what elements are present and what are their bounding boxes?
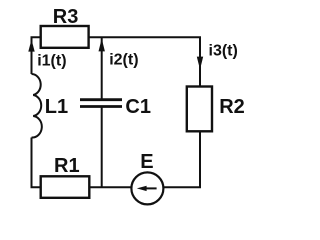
svg-text:i3(t): i3(t) (209, 42, 238, 59)
wire bottom-left corner (L1 bottom to R1 left) (32, 138, 41, 188)
capacitor C1 bottom plate (80, 105, 122, 108)
svg-text:L1: L1 (45, 96, 68, 118)
source E circle (131, 172, 163, 204)
svg-text:i1(t): i1(t) (37, 53, 66, 70)
inductor L1 (32, 74, 42, 138)
current arrow i3(t) head (197, 57, 203, 70)
current arrow i1(t) head (28, 40, 34, 52)
wire top from R3 to top-right corner into R2 branch (89, 37, 200, 86)
wire middle branch lower (C1 bottom plate to bottom node) (101, 107, 103, 188)
svg-text:R1: R1 (54, 155, 80, 177)
source E arrow shaft (144, 187, 157, 189)
wire bottom-right corner (source E to R2 bottom) (164, 131, 200, 187)
wire middle branch upper (node to C1 top plate) (101, 37, 103, 99)
svg-text:i2(t): i2(t) (109, 52, 138, 69)
wire bottom between R1 and source E (89, 186, 131, 188)
source E arrow head (137, 186, 147, 191)
resistor R1 (41, 176, 90, 198)
resistor R2 (187, 87, 212, 132)
svg-text:C1: C1 (125, 96, 151, 118)
svg-text:R3: R3 (53, 6, 79, 28)
svg-text:R2: R2 (219, 96, 245, 118)
resistor R3 (41, 26, 89, 48)
current arrow i2(t) head (99, 39, 105, 52)
wire top-left corner (node between L1 and R3) (32, 37, 41, 74)
capacitor C1 top plate (80, 98, 122, 101)
svg-text:E: E (140, 151, 153, 173)
